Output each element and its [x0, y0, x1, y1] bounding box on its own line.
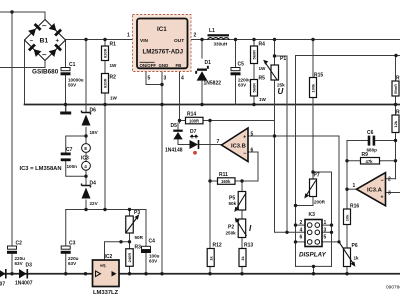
inductor L1 — [208, 28, 230, 46]
svg-text:50R: 50R — [135, 235, 144, 240]
junction (347,189.2) — [345, 188, 348, 191]
op-amp IC1 regulator — [127, 15, 197, 82]
wire R9 row — [347, 141, 396, 161]
wire C3 branch — [65, 210, 67, 274]
junction (12,12) — [10, 10, 13, 13]
svg-text:R13: R13 — [244, 243, 253, 249]
svg-text:IC3 = LM358AN: IC3 = LM358AN — [20, 166, 62, 172]
svg-text:C2: C2 — [16, 241, 23, 247]
svg-text:OUT: OUT — [174, 38, 184, 44]
potentiometer P1 — [263, 56, 286, 96]
resistor R1 — [102, 42, 118, 69]
svg-text:R2: R2 — [110, 75, 117, 81]
svg-text:63V: 63V — [15, 261, 24, 266]
svg-text:R8: R8 — [396, 110, 400, 116]
junction (347,273.75) — [345, 272, 348, 275]
svg-text:U: U — [278, 87, 284, 96]
svg-text:C5: C5 — [238, 62, 245, 68]
junction (395.5,104.5) — [394, 103, 397, 106]
svg-text:4: 4 — [84, 164, 87, 169]
svg-text:1k: 1k — [240, 255, 245, 260]
svg-text:L1: L1 — [209, 28, 215, 34]
capacitor C2 — [7, 241, 25, 267]
junction (210,273.75) — [208, 272, 211, 275]
svg-text:+: + — [243, 135, 246, 141]
svg-text:50V: 50V — [68, 83, 77, 88]
junction (313.5,273.75) — [312, 272, 315, 275]
svg-text:GND: GND — [159, 63, 169, 68]
junction (129.5,241.8) — [128, 240, 131, 243]
svg-text:C7: C7 — [66, 147, 73, 153]
wire R15 top — [312, 40, 314, 78]
junction (86,136) — [84, 134, 87, 137]
wire D6 branch — [178, 121, 189, 145]
LED D7 — [190, 129, 199, 155]
svg-text:820R: 820R — [103, 48, 108, 58]
wire zener D4 bottom row — [66, 209, 146, 211]
wire C2 bottom — [11, 254, 13, 274]
wire IC3B pin6 minus — [248, 152, 258, 181]
svg-text:100n: 100n — [67, 164, 78, 169]
svg-text:10k: 10k — [345, 214, 350, 221]
svg-text:∼: ∼ — [42, 53, 47, 59]
diode D1 schottky — [195, 60, 221, 87]
svg-text:R15: R15 — [314, 73, 323, 79]
svg-text:K3: K3 — [309, 212, 316, 218]
junction (85.5,273.75) — [84, 272, 87, 275]
wire P7 bottom to netY — [296, 197, 314, 206]
svg-text:8: 8 — [84, 146, 87, 151]
wire P7 top to R15 bottom — [312, 98, 314, 180]
svg-text:47k: 47k — [366, 159, 374, 164]
wire display ground loop — [296, 266, 332, 273]
wire P5 to P2 — [241, 210, 243, 219]
wire net output sense from P1 top — [275, 56, 288, 232]
junction (313.5,266.4) — [312, 265, 315, 268]
svg-text:2: 2 — [194, 33, 197, 39]
op-amp IC3.A — [353, 173, 392, 206]
junction (129.5,273.75) — [128, 272, 131, 275]
svg-text:∼: ∼ — [42, 24, 47, 30]
capacitor C4 — [141, 239, 160, 264]
potentiometer P5 — [229, 192, 247, 213]
wire D5 zener branch from top rail — [85, 40, 87, 210]
svg-text:C4: C4 — [149, 239, 156, 245]
svg-text:B1: B1 — [40, 38, 49, 45]
svg-text:1W: 1W — [110, 63, 118, 68]
svg-text:1: 1 — [324, 220, 327, 226]
junction (210,120.5) — [208, 119, 211, 122]
svg-text:5: 5 — [251, 132, 254, 138]
svg-text:7: 7 — [217, 139, 220, 145]
svg-text:R12: R12 — [213, 243, 222, 249]
svg-text:2: 2 — [388, 177, 391, 183]
wire P7 node to K3 pin1 — [313, 172, 332, 266]
svg-text:IC3.B: IC3.B — [231, 144, 246, 150]
svg-text:18V: 18V — [90, 130, 99, 135]
wire P1 bottom down to K3 pin4 — [275, 80, 306, 232]
svg-text:2: 2 — [300, 220, 303, 226]
svg-text:330uH: 330uH — [214, 41, 228, 46]
svg-text:100R: 100R — [189, 119, 199, 124]
svg-text:R3: R3 — [135, 245, 142, 251]
svg-text:3: 3 — [388, 191, 391, 197]
junction (202,104.5) — [200, 103, 203, 106]
junction (242,273.75) — [240, 272, 243, 275]
IC3 supply pin 8 — [82, 144, 91, 153]
svg-text:D1: D1 — [205, 60, 212, 66]
diode D6 1N4148 — [165, 123, 183, 153]
wire AC input 1 top left — [0, 12, 45, 20]
connector K3 — [299, 212, 327, 259]
wire 0V rail — [25, 104, 400, 106]
junction (162,273.75) — [160, 272, 163, 275]
resistor R3 — [126, 245, 141, 267]
wire D1 branch — [201, 40, 203, 105]
capacitor C5 — [231, 62, 252, 88]
wire P2 to R13 — [241, 238, 243, 249]
junction (162,84.5) — [160, 83, 163, 86]
svg-text:3: 3 — [164, 76, 167, 82]
junction (395.5,160.8) — [394, 159, 397, 162]
potentiometer P6 — [339, 242, 359, 267]
svg-text:6: 6 — [300, 235, 303, 241]
svg-text:ON/OFF: ON/OFF — [140, 63, 157, 68]
svg-text:R1: R1 — [110, 42, 117, 48]
svg-text:D5: D5 — [171, 123, 178, 129]
wire IC1 pin5 onoff — [146, 68, 162, 85]
wire IC2 adj line — [105, 242, 130, 260]
capacitor C1 — [61, 62, 84, 88]
wire K3 pin6 — [296, 241, 306, 243]
svg-text:C6: C6 — [367, 130, 374, 136]
svg-text:R16: R16 — [350, 204, 359, 210]
svg-text:560R: 560R — [252, 50, 257, 60]
resistor R12 — [207, 243, 222, 267]
svg-text:R4: R4 — [259, 42, 266, 48]
junction (395.5,140.5) — [394, 139, 397, 142]
svg-text:50k: 50k — [229, 201, 237, 206]
potentiometer P7 — [304, 173, 325, 205]
junction (274.5,56) — [273, 54, 276, 57]
wire C7 bottom — [66, 161, 86, 176]
wire P1 top — [274, 40, 276, 66]
wire R11 row — [210, 121, 242, 249]
wire R16 column — [346, 141, 348, 274]
svg-text:4007: 4007 — [0, 282, 5, 288]
junction (162,104.5) — [160, 103, 163, 106]
svg-text:FB: FB — [176, 63, 182, 68]
capacitor C6 — [367, 130, 378, 153]
junction (242,181) — [240, 179, 243, 182]
wire C4 branch — [145, 210, 147, 274]
svg-text:100k: 100k — [311, 83, 316, 93]
voltage regulator IC2 — [93, 254, 120, 296]
svg-text:DISPLAY: DISPLAY — [299, 252, 327, 259]
svg-text:R10: R10 — [396, 76, 400, 82]
wire top positive rail — [66, 39, 138, 41]
svg-text:R11: R11 — [219, 172, 228, 178]
svg-text:1W: 1W — [259, 97, 267, 102]
junction (331.5,225.1) — [330, 223, 333, 226]
svg-text:1W: 1W — [110, 96, 118, 101]
svg-text:P3: P3 — [134, 210, 140, 216]
wire AC input 2 lower — [0, 61, 45, 68]
wire R3 — [129, 242, 131, 274]
wire R11 right to P5 and pin6 — [242, 181, 258, 192]
svg-text:LM337LZ: LM337LZ — [93, 290, 119, 296]
junction (347,160.8) — [345, 159, 348, 162]
svg-text:4: 4 — [181, 76, 184, 82]
resistor R13 — [239, 243, 253, 267]
junction (86,176.25) — [84, 175, 87, 178]
svg-text:IC2: IC2 — [105, 254, 113, 260]
zener D6 18V — [82, 108, 99, 136]
svg-text:50mR: 50mR — [394, 84, 398, 94]
wire shunt net Y — [296, 56, 400, 267]
wire K3 pin2 — [296, 224, 306, 226]
wire C5 branch — [235, 40, 237, 105]
svg-text:4: 4 — [300, 227, 303, 233]
junction (287,232.3) — [285, 231, 288, 234]
wire IC3B pin5 plus — [248, 135, 339, 137]
svg-text:VIN: VIN — [140, 38, 149, 44]
wire AC1 branch down to C2 — [11, 12, 13, 246]
junction (313,39.5) — [311, 38, 314, 41]
junction (86,39.5) — [84, 38, 87, 41]
junction (339,241.9) — [337, 240, 340, 243]
junction (121,241.8) — [119, 240, 122, 243]
potentiometer P2 — [226, 218, 253, 238]
junction (295.5,241.9) — [294, 240, 297, 243]
svg-text:5: 5 — [148, 76, 151, 82]
diode D3 — [15, 263, 33, 287]
junction (235.5,39.5) — [234, 38, 237, 41]
diode D2 (clipped at left edge) — [0, 269, 6, 288]
ground bar — [60, 105, 71, 115]
svg-text:D6: D6 — [90, 108, 97, 114]
svg-text:1k: 1k — [208, 255, 213, 260]
junction (274.5,136) — [273, 134, 276, 137]
wire C6 row — [347, 140, 396, 142]
junction (254,39.5) — [252, 38, 255, 41]
junction (179.5,120.5) — [178, 119, 181, 122]
resistor shunt 50mR — [392, 76, 400, 97]
wire P3 top — [129, 210, 131, 217]
svg-text:1: 1 — [127, 33, 130, 39]
svg-text:240R: 240R — [127, 253, 132, 263]
junction (105,209.5) — [103, 208, 106, 211]
svg-text:090786: 090786 — [386, 285, 400, 291]
svg-text:820R: 820R — [103, 78, 108, 88]
svg-text:63V: 63V — [149, 259, 158, 264]
wire bridge minus to 0V rail — [24, 40, 26, 105]
resistor R15 — [310, 73, 324, 98]
svg-text:adj.: adj. — [100, 264, 107, 268]
svg-text:D7: D7 — [190, 129, 197, 135]
resistor R11 — [218, 172, 236, 184]
svg-text:P6: P6 — [352, 243, 358, 249]
capacitor C3 — [61, 241, 79, 267]
junction (105,39.5) — [103, 38, 106, 41]
svg-text:C1: C1 — [69, 62, 76, 68]
resistor R5 — [251, 76, 267, 103]
junction (86,209.5) — [84, 208, 87, 211]
svg-text:−: − — [30, 38, 34, 44]
resistor R14 — [186, 112, 204, 124]
svg-text:250k: 250k — [226, 231, 237, 236]
svg-text:160k: 160k — [221, 179, 231, 184]
junction (210,181) — [208, 179, 211, 182]
junction (396,55.5) — [394, 54, 397, 57]
svg-text:R14: R14 — [187, 112, 196, 118]
wire R14 right to IC3B plus node — [210, 120, 275, 122]
junction (105,104.5) — [103, 103, 106, 106]
wire IC3A output pin1 — [347, 188, 357, 190]
wire led to IC3B output pin7 — [199, 144, 221, 146]
wire K3 pin5 up to IC3B plus — [322, 136, 340, 242]
resistor R9 — [361, 152, 380, 164]
svg-text:C3: C3 — [69, 241, 76, 247]
svg-text:63V: 63V — [238, 83, 247, 88]
junction (295.5,205.5) — [294, 204, 297, 207]
wire bottom negative rail — [0, 273, 400, 275]
svg-text:IC1: IC1 — [157, 26, 167, 33]
wire IC3A pin3 — [386, 192, 400, 194]
svg-text:IC3: IC3 — [81, 156, 89, 162]
svg-text:P1: P1 — [280, 56, 286, 62]
resistor 12k — [392, 110, 400, 133]
bridge rectifier B1 — [25, 20, 66, 76]
zener D4 22V — [82, 181, 99, 207]
junction (295.5,225.1) — [294, 223, 297, 226]
svg-text:LM2576T-ADJ: LM2576T-ADJ — [143, 49, 184, 56]
svg-text:D3: D3 — [26, 263, 33, 269]
svg-text:+: + — [56, 38, 60, 44]
wire C7 top — [66, 136, 86, 153]
svg-text:P7: P7 — [314, 173, 320, 179]
op-amp IC3.B — [217, 128, 254, 162]
svg-text:680p: 680p — [367, 148, 378, 153]
svg-text:+: + — [381, 195, 384, 201]
junction (254,104.5) — [252, 103, 255, 106]
svg-text:1W: 1W — [259, 66, 267, 71]
wire R1 R2 chain — [104, 40, 106, 210]
wire IC3A pin2 — [386, 178, 396, 180]
svg-text:1N4007: 1N4007 — [15, 281, 33, 287]
junction (12,273.75) — [10, 272, 13, 275]
svg-text:R5: R5 — [259, 76, 266, 82]
svg-text:GSIB680: GSIB680 — [32, 69, 59, 76]
junction (313,172) — [311, 170, 314, 173]
svg-text:3: 3 — [324, 227, 327, 233]
wire 12k shunt column — [395, 56, 397, 179]
wire top rail after IC1 — [188, 39, 400, 41]
wire R12 bottom — [209, 266, 211, 274]
junction (274.5,39.5) — [273, 38, 276, 41]
svg-text:−: − — [381, 178, 384, 184]
potentiometer P3 — [126, 210, 144, 240]
resistor R2 — [102, 74, 118, 101]
junction (65.75,273.75) — [64, 272, 67, 275]
wire C1 branch — [65, 40, 67, 105]
svg-text:1N5822: 1N5822 — [204, 81, 222, 87]
junction (202,39.5) — [200, 38, 203, 41]
svg-text:−: − — [243, 151, 246, 157]
wire IC1 pin3 gnd long — [161, 68, 163, 274]
svg-text:12k: 12k — [393, 120, 398, 127]
junction (65.5,104.5) — [64, 103, 67, 106]
wire P3 bottom — [129, 233, 131, 242]
svg-text:1N4148: 1N4148 — [165, 148, 183, 154]
resistor R16 — [344, 204, 360, 225]
svg-text:1k: 1k — [354, 256, 360, 261]
junction (129.5,209.5) — [128, 208, 131, 211]
wire R13 bottom — [241, 266, 243, 274]
svg-text:63V: 63V — [68, 261, 77, 266]
svg-text:D4: D4 — [90, 181, 97, 187]
junction (146,273.75) — [144, 272, 147, 275]
wire IC1 pin4 fb — [179, 68, 181, 121]
svg-text:R9: R9 — [362, 152, 369, 158]
svg-text:22V: 22V — [90, 201, 99, 206]
resistor R4 — [251, 42, 267, 72]
svg-text:560R: 560R — [252, 83, 257, 93]
IC3 supply pin 4 — [82, 161, 91, 170]
svg-text:6: 6 — [251, 148, 254, 154]
capacitor C7 — [61, 147, 77, 169]
svg-text:1: 1 — [353, 183, 356, 189]
svg-text:5: 5 — [324, 235, 327, 241]
svg-text:IC3.A: IC3.A — [367, 188, 383, 194]
wire fb node to R14 — [180, 120, 211, 122]
junction (331.5,232.3) — [330, 231, 333, 234]
svg-text:200R: 200R — [314, 200, 326, 205]
wire R4 R5 chain — [253, 40, 255, 105]
